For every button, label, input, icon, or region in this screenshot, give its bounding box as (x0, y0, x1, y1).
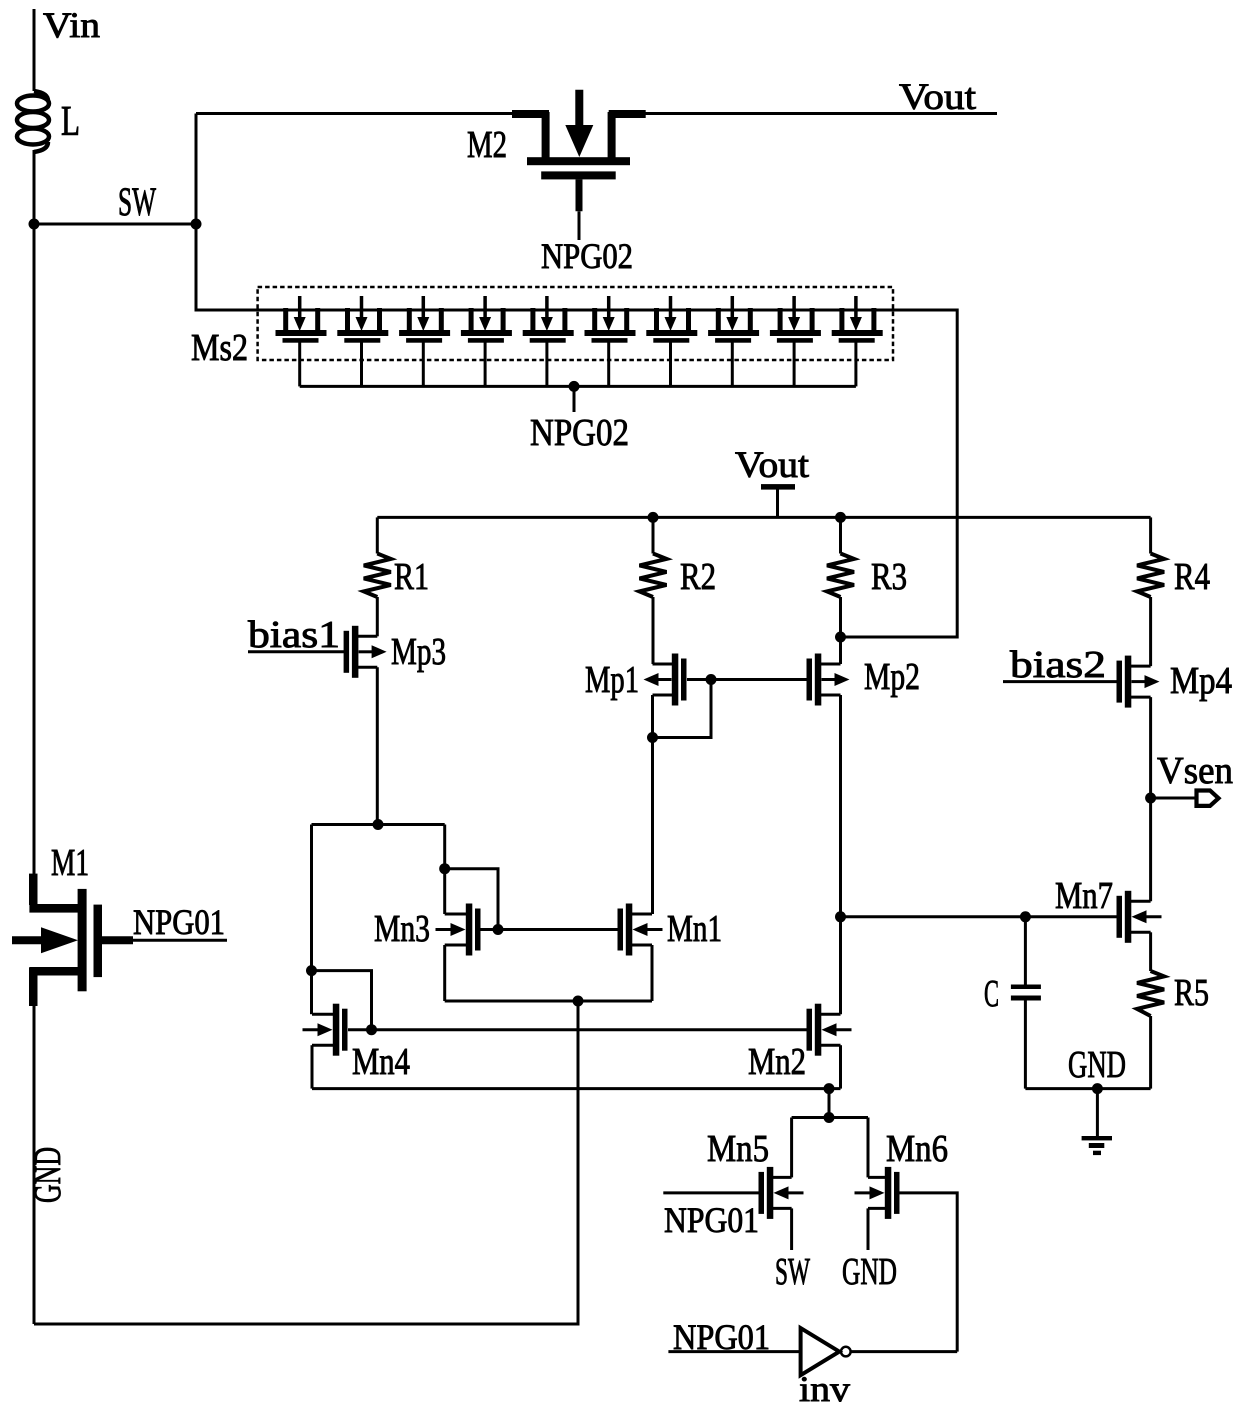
svg-text:R1: R1 (394, 556, 429, 598)
wire Mn3 gate to Mn1 gate (480, 928, 618, 931)
wire SW down to Ms2 chain (196, 224, 287, 310)
Ms2 cell 3 (407, 308, 412, 331)
wire SW down to M1 (33, 224, 36, 874)
node Mp3 drain junction (373, 819, 384, 830)
wire Vout rail (377, 516, 1150, 519)
wire Mn6 gate from inverter (899, 1193, 957, 1352)
transistor Mn5 (767, 1167, 774, 1219)
node Mn4 gate-drain junction top (306, 965, 317, 976)
inverter inv (801, 1328, 840, 1375)
transistor Mp4 (1125, 656, 1132, 708)
Ms2 cell 7 (654, 308, 659, 331)
svg-text:bias2: bias2 (1010, 644, 1106, 686)
svg-text:R4: R4 (1174, 556, 1210, 598)
svg-text:Ms2: Ms2 (191, 327, 248, 369)
svg-text:Mn7: Mn7 (1055, 875, 1113, 917)
svg-text:Mn2: Mn2 (748, 1041, 806, 1083)
wire Ms2 gate bus (300, 385, 856, 388)
node mirror source junction (573, 996, 584, 1007)
resistor R3 (839, 517, 842, 553)
transistor Mn7 (1125, 891, 1132, 943)
transistor M1 (29, 874, 38, 905)
svg-text:R5: R5 (1174, 972, 1209, 1014)
wire Mn7 gate line (841, 915, 1118, 918)
svg-text:Vout: Vout (899, 77, 977, 118)
node SW junction left (29, 219, 40, 230)
svg-text:SW: SW (118, 179, 156, 224)
svg-text:R2: R2 (680, 556, 716, 598)
svg-text:bias1: bias1 (248, 614, 340, 656)
wire Mn3 source down (443, 945, 446, 1001)
node Mn3 drain-gate junction (439, 863, 450, 874)
svg-text:Vsen: Vsen (1157, 750, 1233, 792)
wire mirror source rail (445, 1000, 652, 1003)
wire Mn2 source down (839, 1045, 842, 1088)
wire Mp1 gate to Mp2 gate (687, 678, 808, 681)
node R2 rail junction (648, 512, 659, 523)
wire M2 source to Vout (645, 112, 997, 115)
capacitor C (1024, 917, 1027, 986)
wire Vsen down to Mn7 (1149, 798, 1152, 901)
node capacitor C tap junction (1020, 911, 1031, 922)
Ms2 cell 1 (283, 308, 288, 331)
node SW junction right (191, 219, 202, 230)
svg-text:NPG01: NPG01 (664, 1200, 759, 1240)
wire Mn4 diode connection (312, 971, 372, 1030)
svg-text:Mn1: Mn1 (667, 908, 722, 950)
Ms2 cell 8 (716, 308, 721, 331)
wire Mn6 drain down (867, 1118, 870, 1178)
svg-text:Mn6: Mn6 (886, 1128, 948, 1170)
transistor Mn1 (626, 904, 633, 956)
wire left branch down to Mn4 (310, 825, 313, 971)
node R3 to Ms2 junction (835, 632, 846, 643)
node Ms2 gate bus junction (569, 381, 580, 392)
node Mp1 drain junction (647, 732, 658, 743)
wire Mn5 drain down (790, 1118, 793, 1178)
wire GND bottom path (34, 1001, 578, 1324)
wire Mp4 drain down (1149, 697, 1152, 798)
wire Mn3 diode connection (445, 869, 498, 930)
svg-text:GND: GND (842, 1251, 897, 1293)
svg-text:inv: inv (799, 1369, 850, 1409)
svg-text:GND: GND (1068, 1044, 1126, 1086)
svg-text:Vout: Vout (735, 445, 810, 486)
port Vsen pin (1197, 791, 1219, 806)
node Mn3 gate junction (493, 924, 504, 935)
wire Mn4 gate to Mn2 gate (348, 1028, 807, 1031)
wire NPG02 stem (573, 386, 576, 412)
wire Mp1 drain down to Mn1 (651, 695, 654, 914)
transistor M1 bulk arrow (12, 936, 44, 944)
wire inverter input (668, 1350, 800, 1353)
Ms2 cell 10 (839, 308, 844, 331)
wire Ms2 chain output right (841, 310, 958, 637)
svg-text:M1: M1 (51, 842, 89, 884)
wire bias1 to Mp3 gate (248, 650, 344, 653)
wire L to SW (33, 150, 36, 224)
transistor Mn3 (466, 904, 473, 956)
svg-text:SW: SW (775, 1251, 810, 1293)
node tail junction (824, 1083, 835, 1094)
wire Mp3 drain node horizontal (312, 823, 445, 826)
transistor Mn6 (885, 1167, 892, 1219)
transistor Mn2 (815, 1004, 822, 1056)
transistor M2 bulk arrow (575, 90, 583, 128)
resistor R4 (1149, 517, 1152, 553)
wire M1 source down GND path (33, 1006, 36, 1324)
transistor Mp3 (352, 626, 359, 678)
transistor Mn4 (333, 1004, 340, 1056)
node GND junction (1092, 1083, 1103, 1094)
wire inverter output (851, 1350, 958, 1353)
svg-text:R3: R3 (871, 556, 907, 598)
node Mp1 gate-drain junction (706, 674, 717, 685)
wire Vin vertical (33, 9, 36, 91)
wire tail down to Mn5 Mn6 (828, 1089, 831, 1118)
wire Mn3 drain branch down (443, 825, 446, 869)
wire tail rail (312, 1087, 841, 1090)
svg-text:Mp2: Mp2 (864, 656, 920, 698)
wire M2 drain from SW (196, 112, 516, 115)
transistor M2 (512, 110, 549, 118)
node Mn7 gate at Mp2 drain (835, 911, 846, 922)
svg-text:Mp4: Mp4 (1170, 660, 1232, 702)
svg-text:Mp3: Mp3 (391, 631, 446, 673)
wire C R5 bottom (1025, 1087, 1150, 1090)
wire Vsen stub (1151, 797, 1197, 800)
wire Mn5 Mn6 drain bar (792, 1116, 868, 1119)
wire Mp3 drain down (376, 667, 379, 824)
inductor L (17, 91, 49, 152)
Ms2 dashed box (258, 287, 893, 360)
wire Ms2 chain top segments (318, 309, 348, 312)
svg-text:Mn3: Mn3 (374, 908, 430, 950)
svg-text:NPG02: NPG02 (541, 236, 633, 276)
wire Mp1 diode connection (653, 680, 712, 738)
node Vsen junction (1145, 793, 1156, 804)
wire bias2 to Mp4 gate (1003, 680, 1117, 683)
Ms2 cell 4 (469, 308, 474, 331)
wire SW horizontal (34, 223, 196, 226)
node Mn5 Mn6 drain junction (824, 1112, 835, 1123)
wire Mp2 drain down to Mn2 (839, 695, 842, 1014)
wire M1 gate lead (102, 936, 133, 944)
wire Mn3 drain down (443, 869, 446, 914)
svg-text:NPG02: NPG02 (530, 412, 629, 454)
svg-text:Vin: Vin (43, 5, 100, 45)
svg-text:M2: M2 (467, 124, 507, 166)
wire Mn4 drain down (310, 971, 313, 1015)
Ms2 cell 6 (592, 308, 597, 331)
svg-text:Mn4: Mn4 (352, 1041, 410, 1083)
resistor R2 (652, 517, 655, 553)
wire Mn5 gate lead (663, 1191, 758, 1194)
ground symbol (1096, 1089, 1099, 1137)
wire Mn5 source to SW (790, 1208, 793, 1250)
wire M2 gate stem (576, 179, 583, 211)
resistor R1 (376, 517, 379, 553)
net Vout supply symbol (761, 484, 795, 490)
wire Mn6 source to GND (867, 1208, 870, 1250)
svg-text:L: L (61, 99, 80, 145)
svg-text:Mp1: Mp1 (585, 659, 639, 701)
transistor Mp1 (672, 654, 679, 706)
svg-text:NPG01: NPG01 (133, 902, 225, 942)
svg-text:Mn5: Mn5 (707, 1128, 769, 1170)
svg-text:GND: GND (27, 1147, 69, 1203)
node R3 rail junction (835, 512, 846, 523)
wire SW up to M2 branch (195, 114, 198, 225)
svg-text:C: C (984, 973, 999, 1015)
Ms2 cell 2 (345, 308, 350, 331)
node Mn4 gate junction (366, 1024, 377, 1035)
Ms2 cell 5 (530, 308, 535, 331)
wire Mn4 source down (311, 1045, 314, 1088)
Ms2 cell 9 (778, 308, 783, 331)
resistor R5 (1149, 932, 1152, 971)
wire Mn1 source down (651, 945, 654, 1001)
transistor Mp2 (815, 654, 822, 706)
